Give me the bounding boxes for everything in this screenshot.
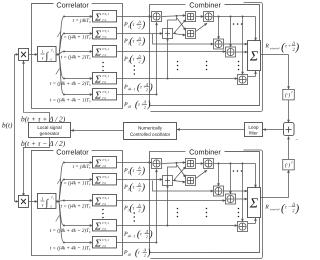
sampling time label row 3 (top) [61,53,91,60]
multiplier (top) [19,48,29,60]
wire sum output bottom R [260,169,289,197]
svg-text:Loop: Loop [248,125,259,130]
wire correlator output row 2 (bottom) [116,178,163,181]
label P_2 (top) [123,36,146,47]
multiplier (bottom) [18,195,28,207]
wire multiplier to integrator (bottom) [28,200,38,203]
squarer top [283,89,295,100]
label P_4k&#8722;1 (bottom) [123,229,153,240]
svg-text:): ) [295,41,300,53]
wire A1 branch diagonal to M2 (top) [177,18,187,32]
combiner outer border (bottom) [150,150,262,259]
svg-text:Σ: Σ [249,197,259,212]
svg-text:−: − [295,138,298,143]
svg-text:τ +: τ + [285,44,291,49]
summation block row 1 (bottom) [92,156,116,169]
label b(t+tau-Delta/2) [21,139,66,148]
sampling time label row 2 (top) [61,33,91,40]
wire integrator output fan (bottom) [56,162,65,244]
label P_1 (bottom) [123,165,146,176]
wire NCO to local signal generator [70,129,123,132]
correlator dots (bottom) [102,209,135,222]
wire A2 to M2 (bottom) [172,179,186,183]
combiner dots (bottom) [177,170,243,217]
svg-text:t = (j4k + 4k − 2)Ts: t = (j4k + 4k − 2)Ts [50,227,91,234]
wire bus drop to A4 (bottom) [217,163,220,187]
svg-text:b(t): b(t) [2,121,13,129]
sampling time label row 2 (bottom) [61,179,91,186]
adder A1 (bottom) [151,159,161,169]
adder A4 (bottom) [213,186,223,196]
wire correlator output row 5 (top) [117,93,157,95]
wire A6 to sum (bottom) [248,217,257,223]
label P_3 (top) [123,54,146,65]
svg-text:Δ: Δ [145,82,149,87]
svg-text:Controlled oscillator: Controlled oscillator [130,132,171,137]
wire A6 to sum (top) [248,70,257,76]
adder A5 (top) [226,47,236,57]
adder A5 (bottom) [225,194,235,204]
svg-text:): ) [141,19,146,30]
junction dots riser A2 (top) [167,39,169,80]
svg-text:Δ: Δ [145,229,149,234]
svg-text:t = (j4k + 4k − 2)Ts: t = (j4k + 4k − 2)Ts [50,80,91,87]
wire bus drop to A6 (top) [241,16,244,76]
svg-text:t = (j4k + 4k − 1)Ts: t = (j4k + 4k − 1)Ts [50,96,91,103]
wire A2 branch diagonal to M1 (top) [175,18,188,32]
wire M1 to A3 (bottom) [195,162,204,165]
integrator (top) [38,46,57,61]
multiplier M2 (bottom) [185,176,195,186]
wire bus drop to A5 (top) [229,16,232,48]
svg-text:4k: 4k [128,105,132,109]
svg-text:1: 1 [41,49,43,54]
svg-text:Combiner: Combiner [189,148,221,157]
adder A1 (top) [152,12,162,22]
wire row 2 to summation (bottom) [64,178,93,181]
wire correlator output row 3 (bottom) [116,199,226,202]
adder A2 (top) [163,29,173,39]
wire row 2 to summation (top) [64,32,93,35]
local signal generator [28,122,70,137]
summer Sigma (top) [248,41,261,71]
multiplier M1 (bottom) [185,159,195,169]
adder A3 (top) [204,12,214,22]
svg-text:2: 2 [144,253,146,258]
label R_proposed top [264,40,299,53]
svg-text:): ) [141,36,146,47]
discriminator adder [283,123,298,144]
summation block row 4 (top) [93,72,117,85]
wire bus drop to A6 (bottom) [241,163,244,223]
multiplier M2 (top) [186,29,196,39]
wire row 1 to summation (top) [64,15,93,18]
svg-text:): ) [141,182,146,193]
wire sum output top R [261,55,290,90]
svg-text:Δ: Δ [137,203,141,208]
junction dots riser A2 (bottom) [166,186,168,227]
svg-text:2: 2 [146,87,148,92]
sampling time label row 5 (top) [50,96,91,103]
wire A4 to sum (top) [224,43,249,46]
svg-text:generator: generator [40,131,60,136]
wire adder to loop filter [262,128,283,131]
summation block row 2 (bottom) [92,173,116,186]
svg-text:t = (j4k + 4k − 1)Ts: t = (j4k + 4k − 1)Ts [50,244,91,251]
svg-text:R: R [264,44,269,50]
svg-text:2: 2 [138,187,140,192]
wire row 3 to summation (top) [64,50,93,53]
wire row 3 to summation (bottom) [64,199,93,202]
svg-text:t = (j4k + 1)Ts: t = (j4k + 1)Ts [61,33,91,40]
wire loop-filter to NCO [176,128,244,131]
svg-text:Δ: Δ [137,19,141,24]
wire M2 diagonal to A3 bottom (bottom) [195,169,208,179]
sampling time label row 4 (top) [50,80,91,87]
svg-text:2: 2 [138,41,140,46]
sampling time label row 4 (bottom) [50,227,91,234]
summation block row 1 (top) [93,10,117,23]
svg-text:): ) [146,247,151,258]
wire A1 junction to A2 (top) [168,17,177,79]
wire b(t) riser [14,53,19,203]
svg-text:Local signal: Local signal [37,125,61,130]
combiner box (top) [150,0,260,105]
svg-text:s: s [53,50,54,53]
adder A3 (bottom) [203,159,213,169]
wire squarer bottom to adder [287,136,290,159]
summation block row 2 (top) [93,27,117,40]
svg-text:t = j4kTs: t = j4kTs [73,18,91,24]
wire A2 to M2 (top) [173,32,187,36]
svg-text:4k: 4k [128,253,132,257]
wire A3 output bus (top) [214,17,257,42]
svg-text:proposed: proposed [269,208,280,211]
wire riser P4k to A1 (top) [155,22,158,96]
svg-text:Δ: Δ [137,54,141,59]
svg-text:t = j4kTs: t = j4kTs [73,164,91,170]
svg-text:): ) [141,203,146,214]
svg-text:Numerically: Numerically [138,125,163,130]
wire row 5 to summation (top) [64,93,93,96]
input signal b(t) label [2,121,13,129]
svg-text:t = (j4k + 2)Ts: t = (j4k + 2)Ts [61,202,91,209]
svg-text:Correlator: Correlator [56,0,89,9]
wire correlator output row 5 (bottom) [116,241,156,243]
label P_4k (bottom) [123,247,151,258]
wire multiplier to integrator (top) [29,53,39,56]
svg-text:s: s [53,197,54,200]
numerically controlled oscillator [123,122,176,139]
correlator box (bottom) [31,147,122,255]
svg-text:proposed: proposed [269,47,280,50]
wire correlator output row 1 (top) [117,15,153,18]
summation block row 3 (bottom) [92,194,116,207]
wire A4 to sum (bottom) [223,190,248,193]
sampling time label row 3 (bottom) [61,202,91,209]
combiner dots (top) [177,23,243,70]
svg-text:R: R [264,205,269,211]
wire A1 to M1 (bottom) [161,161,186,164]
svg-text:2: 2 [138,208,140,213]
summation block row 3 (top) [93,45,117,58]
svg-text:2: 2 [138,59,140,64]
svg-text:1: 1 [41,196,43,201]
svg-text:Δ: Δ [137,165,141,170]
svg-text:): ) [146,99,151,110]
label P_1 (top) [123,19,146,30]
svg-text:2: 2 [138,25,140,30]
correlator box (top) [32,0,123,108]
adder A2 (bottom) [162,176,172,186]
svg-text:): ) [148,82,153,93]
svg-text:Σ: Σ [249,50,259,65]
integrator (bottom) [37,193,56,208]
svg-text:Combiner: Combiner [189,1,221,10]
svg-text:): ) [294,203,299,215]
wire correlator output row 1 (bottom) [116,161,152,164]
wire M1 to A3 (top) [196,15,205,18]
wire A2 branch diagonal to M1 (bottom) [174,165,187,179]
multiplier M1 (top) [186,12,196,22]
wire integrator output fan (top) [56,16,65,96]
wire M2 diagonal to A3 bottom (top) [196,22,209,32]
wire A3 output bus (bottom) [213,164,256,189]
label P_4k&#8722;1 (top) [123,82,153,93]
svg-text:t = (j4k + 2)Ts: t = (j4k + 2)Ts [61,53,91,60]
wire late code b(t+tau-Delta/2) [22,137,49,196]
sampling time label row 5 (bottom) [50,244,91,251]
wire A1 branch diagonal to M2 (bottom) [177,165,187,179]
svg-text:4k−1: 4k−1 [128,234,136,238]
wire row 4 to summation (top) [64,77,93,80]
wire A1 junction to A2 (bottom) [167,164,176,226]
label P_3 (bottom) [123,203,146,214]
adder A6 (top) [238,75,248,85]
svg-text:t = (j4k + 1)Ts: t = (j4k + 1)Ts [61,179,91,186]
wire A5 to sum (top) [236,51,249,54]
combiner box (bottom) [149,147,259,252]
svg-text:Δ: Δ [137,36,141,41]
wire row 4 to summation (bottom) [64,224,93,227]
svg-text:): ) [141,54,146,65]
wire A1 to M1 (top) [162,14,187,17]
wire squarer top to adder [287,100,290,123]
svg-text:τ −: τ − [285,205,291,210]
label b(t+tau+Delta/2) [21,114,66,123]
wire early code b(t+tau+Delta/2) [22,60,49,122]
loop filter [244,123,262,137]
summer Sigma (bottom) [247,188,260,218]
sampling time label row 1 (bottom) [73,164,91,170]
svg-text:Δ: Δ [143,99,147,104]
wire A5 to sum (bottom) [235,198,248,201]
wire correlator output row 3 (top) [117,50,227,53]
sampling time label row 1 (top) [73,18,91,24]
svg-text:filter: filter [249,131,258,136]
svg-text:): ) [141,165,146,176]
svg-text:2: 2 [146,234,148,239]
svg-text:): ) [148,229,153,240]
adder A4 (top) [214,39,224,49]
label R_proposed bottom [264,202,299,215]
squarer bottom [283,159,295,170]
wire correlator output row 2 (top) [117,32,164,35]
wire bus drop to A4 (top) [217,16,220,40]
svg-text:Δ: Δ [143,247,147,252]
correlator dots (top) [102,62,135,75]
svg-text:4k−1: 4k−1 [128,87,136,91]
svg-text:b(t + τ + Δ / 2): b(t + τ + Δ / 2) [21,114,66,123]
summation block row 5 (top) [93,88,117,101]
wire correlator output row 4 (bottom) [116,224,238,227]
label P_2 (bottom) [123,182,146,193]
wire riser P4k to A1 (bottom) [155,169,158,244]
wire row2 branch to A4 (bottom) [152,181,214,193]
svg-text:2: 2 [144,105,146,110]
label P_4k (top) [123,99,151,110]
combiner outer border (top) [151,3,263,112]
adder A6 (bottom) [237,222,247,232]
wire correlator output row 4 (top) [117,77,239,80]
wire row2 branch to A4 (top) [153,34,215,46]
wire row 1 to summation (bottom) [64,161,93,164]
summation block row 4 (bottom) [92,219,116,232]
summation block row 5 (bottom) [92,236,116,249]
svg-text:Δ: Δ [137,182,141,187]
wire bus drop to A5 (bottom) [229,163,232,195]
wire row 5 to summation (bottom) [64,241,93,244]
svg-text:Correlator: Correlator [56,147,89,156]
svg-text:2: 2 [138,171,140,176]
